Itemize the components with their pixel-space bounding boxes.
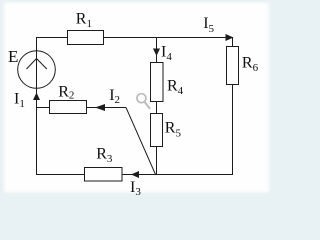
resistor R4 [151, 63, 164, 102]
wire diagonal [126, 108, 156, 175]
resistor R1 [68, 31, 104, 45]
svg-text:E: E [8, 47, 18, 66]
resistor R6 [227, 47, 239, 85]
cursor magnifier [137, 94, 150, 109]
wire R2 branch [37, 107, 127, 109]
arrow I5 right [226, 34, 234, 41]
resistor R3 [85, 168, 123, 182]
background frame [0, 0, 285, 203]
wire middle branch [156, 37, 158, 175]
source E [18, 51, 56, 89]
wire top [37, 37, 234, 39]
arrow I1 up [33, 93, 40, 101]
resistor R2 [50, 101, 87, 114]
arrow I3 left [131, 171, 139, 178]
wire right [232, 37, 234, 175]
resistor R5 [151, 114, 163, 147]
arrow I2 left [95, 104, 105, 111]
wire left [36, 37, 38, 175]
wire bottom [37, 174, 233, 176]
arrow I4 down [153, 49, 160, 57]
